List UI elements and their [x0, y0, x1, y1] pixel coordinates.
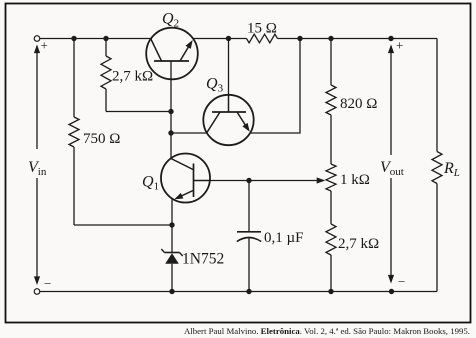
resistor 2.7k ohm right — [326, 224, 336, 292]
wire Q3 collector — [171, 132, 207, 134]
resistor RL load — [432, 152, 442, 184]
resistor 2.7k ohm left — [101, 39, 111, 112]
wire Q3 base to top rail — [228, 39, 230, 96]
transistor Q3 — [203, 95, 253, 145]
svg-text:820 Ω: 820 Ω — [340, 96, 377, 112]
resistor 15 ohm — [247, 34, 278, 43]
wire Q2 base down to Q1 collector — [170, 61, 172, 159]
resistor 750 ohm — [69, 39, 79, 226]
junction top rail / 15 ohm right — [297, 36, 302, 41]
svg-text:1 kΩ: 1 kΩ — [340, 172, 370, 188]
wire 750 ohm to Q1 emitter node — [74, 224, 172, 226]
transistor Q2 — [146, 28, 198, 80]
wire Q1 emitter down to zener — [171, 199, 173, 253]
svg-text:15 Ω: 15 Ω — [247, 21, 277, 37]
junction top rail / 750 ohm — [71, 36, 76, 41]
junction Q1 emitter / 750 ohm wire — [169, 222, 174, 227]
wire right rail load branch — [436, 39, 438, 292]
junction top rail / Vout+ — [388, 36, 393, 41]
wire Q1 base node to capacitor — [248, 181, 250, 232]
junction Q1 base / capacitor — [246, 178, 251, 183]
junction top rail / 2.7k ohm — [103, 36, 108, 41]
junction bottom rail / Vout- — [389, 289, 394, 294]
wire bottom rail — [40, 291, 437, 293]
junction bottom rail / 2.7k right — [328, 289, 333, 294]
Vout measurement arrow — [388, 45, 394, 284]
svg-text:0,1 µF: 0,1 µF — [264, 230, 304, 246]
junction top rail / Q3 base — [226, 36, 231, 41]
node Vin+ input terminal — [34, 36, 40, 42]
svg-text:+: + — [396, 38, 403, 53]
junction Q2 base / 2.7k ohm — [168, 109, 173, 114]
Vin measurement arrow — [34, 45, 40, 286]
wire 2.7k to Q2 base node — [106, 111, 171, 113]
wire potentiometer to 2.7k — [330, 191, 332, 224]
wire Q3 emitter to top rail right of 15 ohm — [251, 39, 301, 134]
svg-text:750 Ω: 750 Ω — [83, 131, 120, 147]
wire capacitor to bottom rail — [248, 237, 250, 291]
node Vin- input terminal — [34, 289, 40, 295]
junction bottom rail / zener — [169, 289, 174, 294]
wire top rail — [40, 38, 437, 40]
capacitor 0.1 uF — [237, 232, 261, 242]
potentiometer wiper arrow to 1k — [249, 177, 325, 183]
junction bottom rail / capacitor — [246, 289, 251, 294]
transistor Q1 — [161, 154, 210, 203]
zener diode 1N752 — [161, 249, 182, 264]
wire zener to bottom rail — [171, 264, 173, 292]
potentiometer 1k ohm — [326, 164, 336, 191]
svg-text:1N752: 1N752 — [182, 251, 224, 268]
svg-text:−: − — [44, 276, 51, 291]
svg-text:2,7 kΩ: 2,7 kΩ — [112, 69, 153, 85]
junction top rail / 820 ohm — [328, 36, 333, 41]
wire Q1 base to junction — [210, 180, 249, 182]
svg-text:Albert Paul Malvino. Eletrônic: Albert Paul Malvino. Eletrônica. Vol. 2,… — [184, 326, 470, 336]
wire 820 ohm to potentiometer — [330, 115, 332, 164]
svg-text:2,7 kΩ: 2,7 kΩ — [338, 236, 379, 252]
svg-text:+: + — [41, 38, 48, 53]
resistor 820 ohm — [326, 39, 336, 116]
svg-text:−: − — [398, 274, 405, 289]
junction Q2 base / Q3 collector — [168, 130, 173, 135]
